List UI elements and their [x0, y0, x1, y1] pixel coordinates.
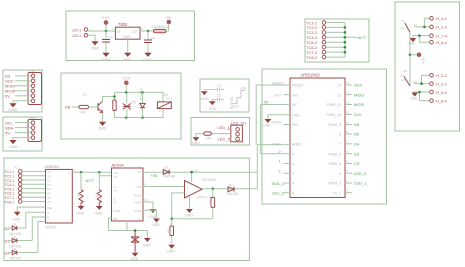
svg-text:5V: 5V — [264, 100, 269, 105]
wire coil ring — [115, 92, 164, 117]
wire gnd pair bottom — [413, 92, 430, 101]
ground LED — [193, 138, 199, 141]
svg-text:H_3-2: H_3-2 — [436, 73, 448, 78]
pin 3V3 — [284, 94, 291, 96]
svg-text:D6: D6 — [354, 132, 360, 137]
svg-text:GND: GND — [91, 46, 100, 51]
svg-text:-IN: -IN — [113, 175, 117, 179]
ground top group — [410, 38, 416, 41]
frame relay driver — [61, 73, 181, 139]
svg-text:PWM_10: PWM_10 — [326, 113, 341, 117]
module U2 ARDUINO — [290, 78, 345, 198]
ground under T1 — [100, 122, 106, 125]
svg-text:GND: GND — [185, 214, 193, 218]
svg-text:GND: GND — [143, 57, 152, 62]
pin 2 LED_1 — [345, 192, 352, 194]
ground SV1 — [10, 104, 16, 107]
wire fuse to +5V — [166, 25, 169, 32]
connector pin 12V-2 — [84, 34, 88, 38]
svg-text:GND: GND — [148, 215, 156, 219]
svg-text:INH: INH — [47, 206, 52, 210]
svg-text:C2: C2 — [217, 94, 221, 98]
pin AREF — [257, 144, 290, 146]
wire R4 to base — [89, 106, 99, 108]
frame programming header — [3, 70, 42, 112]
diode D5 1N4148 — [163, 170, 169, 175]
pin H_5-4 — [430, 90, 434, 94]
wire R2 drop — [80, 172, 82, 189]
svg-text:GND: GND — [130, 257, 138, 261]
ground rail right — [145, 238, 151, 241]
relay K1 coil — [157, 102, 171, 109]
svg-text:LED_2: LED_2 — [354, 171, 367, 176]
svg-text:+12V: +12V — [421, 56, 425, 65]
wire select A — [26, 212, 46, 228]
ground varistor — [132, 253, 138, 256]
svg-text:1N4148: 1N4148 — [163, 174, 175, 178]
svg-text:MCP601: MCP601 — [203, 178, 217, 182]
svg-text:4051N: 4051N — [46, 226, 57, 230]
frame heater outputs — [395, 2, 460, 131]
diode D2 1N4148 — [9, 240, 33, 242]
wire -ALM to ground — [143, 202, 153, 209]
svg-text:GND: GND — [123, 35, 131, 39]
svg-text:8: 8 — [339, 133, 341, 137]
ground under regulator — [125, 53, 131, 56]
junction feedback — [170, 218, 173, 221]
pin H_1-2 — [430, 25, 434, 29]
wire stair to +5V — [233, 91, 245, 104]
pin 6 — [345, 153, 352, 155]
svg-text:A: A — [47, 211, 49, 215]
svg-text:12: 12 — [145, 198, 149, 202]
svg-text:CD4051: CD4051 — [45, 164, 60, 169]
svg-text:RESET: RESET — [292, 84, 305, 88]
junction top throw — [423, 26, 426, 29]
capacitor C3 — [105, 31, 107, 53]
junction top rail 2 — [141, 91, 144, 94]
svg-text:2: 2 — [279, 169, 281, 173]
junction bottom rail — [134, 229, 137, 232]
ground R3 — [97, 206, 103, 209]
svg-text:PWM_11: PWM_11 — [326, 103, 341, 107]
wire bottom throw — [414, 75, 430, 83]
svg-text:G5 1: G5 1 — [166, 97, 173, 101]
wire D6 to R4 — [72, 106, 79, 108]
svg-text:D2: D2 — [404, 69, 408, 73]
ground under C3 — [103, 53, 109, 56]
svg-text:D5: D5 — [164, 166, 168, 170]
pin 7 D4 — [345, 143, 352, 145]
PWRBOX — [66, 11, 195, 62]
svg-text:D3: D3 — [354, 151, 360, 156]
bus wire NCT — [344, 23, 346, 58]
pin VIN — [284, 124, 291, 126]
wire feedback bottom — [172, 218, 213, 220]
svg-text:1N4148: 1N4148 — [226, 192, 238, 196]
pin 2 SCK — [31, 79, 35, 83]
svg-text:H_4-2: H_4-2 — [436, 16, 448, 21]
LEDBOX — [191, 118, 250, 146]
diode D1 1N4148 — [9, 227, 26, 229]
svg-text:GND: GND — [9, 144, 18, 149]
resistor R2 — [79, 190, 83, 206]
ground INH — [14, 212, 20, 215]
pin A0 wire to opamp output — [260, 153, 290, 155]
svg-text:D10: D10 — [354, 112, 362, 117]
svg-text:PWM_6: PWM_6 — [328, 152, 341, 156]
pin 1 D3 — [31, 74, 35, 78]
svg-text:+12V: +12V — [121, 76, 131, 81]
pin 4 MOSI — [31, 89, 35, 93]
svg-text:FB: FB — [113, 217, 117, 221]
junction bottom throw — [420, 82, 423, 85]
ground under C4 — [145, 53, 151, 56]
pin 4 to ground — [31, 136, 35, 140]
wire +12V drop — [105, 25, 107, 31]
wire +12V drop — [125, 85, 127, 93]
svg-text:PWM_5: PWM_5 — [328, 162, 341, 166]
wire gnd pair top — [413, 36, 430, 43]
ARDUINO — [256, 69, 386, 204]
frame mounting — [200, 79, 249, 112]
svg-text:TC8-1: TC8-1 — [5, 200, 15, 204]
ground opamp — [187, 209, 193, 212]
wire select C — [38, 222, 46, 253]
svg-text:TX_1: TX_1 — [332, 191, 341, 195]
fuse F1 — [154, 29, 167, 32]
pin 1 SCL — [31, 121, 35, 125]
pin A4 — [284, 192, 290, 194]
svg-text:D6: D6 — [139, 234, 143, 238]
frame I2C header — [3, 117, 42, 151]
svg-text:+5VIN: +5VIN — [271, 120, 281, 124]
svg-text:C1: C1 — [217, 84, 221, 88]
wire opamp V- — [189, 197, 191, 209]
svg-text:-ALM: -ALM — [134, 201, 142, 205]
svg-text:ARDUINO: ARDUINO — [301, 73, 321, 78]
resistor R4 — [79, 105, 89, 108]
resistor R3 — [97, 190, 101, 206]
ground R8 — [169, 245, 175, 248]
connector LED_SO — [231, 125, 243, 142]
pin 3 circle — [236, 137, 240, 141]
wire emitter to ground — [102, 113, 104, 122]
wire to +12V supply — [410, 54, 417, 56]
ground G1 — [202, 92, 208, 95]
supply +12V right — [417, 53, 421, 57]
svg-text:H_5-4: H_5-4 — [436, 90, 448, 95]
ground arduino — [265, 119, 271, 122]
svg-text:D8: D8 — [354, 122, 360, 127]
svg-text:GND: GND — [13, 218, 21, 222]
svg-text:R3: R3 — [95, 193, 99, 197]
svg-text:D3: D3 — [13, 247, 17, 251]
pin 8 D6 — [345, 133, 352, 135]
svg-text:IC2: IC2 — [233, 105, 238, 109]
wire +5V rail — [143, 171, 257, 173]
svg-text:R4: R4 — [81, 111, 86, 115]
svg-text:LM741-N: LM741-N — [197, 195, 212, 199]
svg-text:V+: V+ — [137, 170, 141, 174]
wire G1 — [204, 90, 217, 92]
svg-text:0: 0 — [292, 152, 294, 156]
wire to ground — [195, 134, 197, 137]
varistor R8 — [126, 92, 128, 117]
wire G2 — [212, 100, 217, 102]
svg-text:K1: K1 — [401, 27, 405, 31]
pin 11 MOSI — [345, 104, 352, 106]
ground G2 — [210, 102, 216, 105]
svg-text:C3: C3 — [108, 36, 113, 40]
svg-text:12V-2: 12V-2 — [72, 34, 81, 38]
pin H_2-2 — [430, 82, 434, 86]
capacitor C1 — [218, 88, 225, 92]
junction output — [147, 30, 150, 33]
junction input — [105, 30, 108, 33]
svg-text:X7: X7 — [47, 200, 51, 204]
svg-text:LED_SO: LED_SO — [231, 122, 246, 126]
diode D3 1N4148 — [9, 252, 38, 254]
svg-text:GND: GND — [201, 97, 209, 101]
svg-text:CS: CS — [354, 161, 360, 166]
connector pin 12V-1 — [84, 28, 88, 32]
svg-text:SV1: SV1 — [29, 69, 36, 73]
svg-text:1: 1 — [292, 162, 294, 166]
svg-text:5V: 5V — [292, 103, 297, 107]
svg-text:X1: X1 — [15, 166, 19, 170]
SV1BOX — [3, 69, 42, 112]
svg-text:H_6-4: H_6-4 — [436, 98, 448, 103]
svg-text:GND: GND — [123, 57, 132, 62]
ground bottom group — [412, 93, 418, 96]
svg-text:VREF: VREF — [272, 143, 282, 147]
junction top rail — [125, 91, 128, 94]
pin RESET — [256, 85, 290, 145]
svg-text:2: 2 — [292, 172, 294, 176]
diode D7 output — [228, 187, 234, 192]
ground under 12V-2 — [92, 42, 98, 45]
pin 3 MISO — [31, 84, 35, 88]
svg-text:PWM_9: PWM_9 — [328, 123, 341, 127]
svg-text:X: X — [68, 172, 70, 176]
frame arduino module — [262, 69, 387, 204]
pin 5 CS — [345, 163, 352, 165]
svg-text:12: 12 — [337, 93, 341, 97]
svg-text:0: 0 — [279, 150, 281, 154]
wire VO to opamp — [143, 186, 185, 188]
resistor R8 — [171, 219, 173, 245]
diode D1 1N4004 — [142, 92, 144, 117]
svg-text:SV2: SV2 — [29, 116, 36, 120]
svg-text:+5V: +5V — [165, 15, 173, 20]
svg-text:R5: R5 — [114, 101, 118, 106]
pin 9 D8 — [345, 124, 352, 126]
GRAYBOX — [200, 79, 249, 112]
wire regulator output — [140, 30, 154, 32]
junction collector — [113, 95, 116, 98]
pin 3 LED_2 — [345, 182, 352, 184]
junction bottom rail — [125, 116, 128, 119]
RIGHTBOX — [395, 2, 460, 131]
pin 10 D10 — [345, 113, 352, 115]
junction gnd pair bottom — [418, 91, 421, 94]
svg-text:R2: R2 — [76, 193, 80, 197]
varistor D6 — [131, 231, 139, 253]
svg-text:RESET: RESET — [272, 81, 285, 85]
wire +12V rail — [409, 32, 411, 86]
svg-text:D1: D1 — [13, 222, 17, 226]
svg-text:1N4148: 1N4148 — [9, 256, 21, 260]
svg-text:GND: GND — [167, 249, 175, 253]
svg-text:R6: R6 — [207, 137, 212, 141]
RELAYBOX — [61, 73, 181, 139]
pin H_3-2 — [430, 73, 434, 77]
pin 2 SDA — [31, 126, 35, 130]
svg-text:SCK: SCK — [354, 83, 363, 88]
junction gnd pair — [418, 34, 421, 37]
svg-text:VIN: VIN — [292, 123, 298, 127]
svg-text:5: 5 — [292, 191, 294, 195]
svg-text:GND: GND — [95, 212, 103, 216]
svg-text:H_1-2: H_1-2 — [436, 25, 448, 30]
svg-text:GND: GND — [143, 244, 151, 248]
wire output — [202, 145, 257, 189]
svg-text:AD594: AD594 — [112, 163, 125, 168]
resistor R7 — [212, 189, 214, 219]
svg-text:3V3: 3V3 — [275, 93, 281, 97]
capacitor C4 — [147, 31, 149, 53]
svg-text:MISO: MISO — [354, 92, 364, 97]
svg-text:12V-1: 12V-1 — [72, 28, 81, 32]
svg-text:SCL_5: SCL_5 — [272, 190, 285, 195]
svg-text:13: 13 — [346, 81, 350, 85]
svg-text:3V3: 3V3 — [292, 93, 298, 97]
junction rail — [409, 53, 412, 56]
svg-text:COM: COM — [134, 209, 142, 213]
pin 13 SCK — [345, 84, 352, 86]
svg-text:+T: +T — [113, 201, 117, 205]
svg-text:SDA_4: SDA_4 — [272, 181, 285, 186]
resistor R6 — [204, 132, 212, 135]
wire mux out to AD594 — [72, 171, 111, 173]
svg-text:+5V: +5V — [151, 173, 159, 178]
wire rail right ground — [146, 231, 148, 238]
svg-text:GND: GND — [152, 223, 160, 227]
pin 12 MISO — [345, 94, 352, 96]
pin 5V — [260, 105, 290, 154]
pin 2 circle — [236, 132, 240, 136]
regulator IC1 7805 — [115, 27, 140, 39]
TCBOX — [305, 19, 369, 62]
svg-text:H_8-4: H_8-4 — [436, 40, 448, 45]
svg-text:H_2-2: H_2-2 — [436, 81, 448, 86]
junction output — [212, 187, 215, 190]
wire R6 to pin2 — [196, 132, 231, 135]
svg-text:4: 4 — [339, 172, 341, 176]
svg-text:H_7-4: H_7-4 — [436, 33, 448, 38]
capacitor C2 — [218, 98, 225, 102]
pin 6 to ground — [31, 99, 35, 103]
ground R2 — [78, 206, 84, 209]
pin H_7-4 — [430, 34, 434, 38]
svg-text:+5V: +5V — [193, 169, 198, 173]
ground -ALM — [150, 209, 156, 212]
svg-text:R8: R8 — [167, 229, 171, 233]
pin GND wire — [268, 115, 290, 119]
wire FB loop — [109, 218, 112, 230]
pin 1 circle — [236, 128, 240, 132]
wire COM right to ground — [143, 210, 157, 218]
svg-text:GND: GND — [209, 107, 217, 111]
pin 4 — [345, 172, 352, 174]
wire -IN — [99, 172, 111, 175]
svg-text:D2: D2 — [13, 235, 17, 239]
svg-text:4: 4 — [292, 182, 294, 186]
pin 5 5V — [31, 94, 35, 98]
pin H_8-4 — [430, 40, 434, 44]
wire select B — [32, 217, 45, 241]
svg-text:NCT: NCT — [358, 35, 367, 40]
wire 12V-2 to ground — [88, 35, 95, 41]
svg-text:NCT: NCT — [86, 178, 95, 183]
svg-text:VO: VO — [132, 30, 137, 34]
svg-text:GND: GND — [192, 141, 200, 145]
svg-text:V-: V- — [138, 217, 141, 221]
svg-text:B: B — [47, 216, 49, 220]
wire collector — [103, 97, 115, 102]
wire R3 drop — [98, 176, 100, 190]
svg-text:+12V: +12V — [100, 15, 110, 20]
ground COM — [154, 219, 160, 222]
junction bottom rail 2 — [141, 116, 144, 119]
svg-text:GND: GND — [76, 212, 84, 216]
svg-text:GND: GND — [9, 107, 18, 112]
pin A1 — [284, 163, 291, 165]
wire INH to ground — [17, 207, 45, 212]
svg-text:MOSI: MOSI — [354, 102, 364, 107]
svg-text:VI: VI — [117, 30, 120, 34]
wire V- bottom rail — [109, 221, 148, 231]
svg-text:T1: T1 — [83, 93, 87, 97]
svg-text:D1: D1 — [401, 19, 405, 23]
pin A3 — [284, 182, 290, 184]
wire 12V input to regulator — [88, 30, 115, 32]
svg-text:D4: D4 — [354, 141, 360, 146]
svg-text:10: 10 — [346, 110, 350, 114]
svg-text:12: 12 — [346, 91, 350, 95]
svg-text:5V: 5V — [5, 94, 10, 99]
frame power supply — [66, 11, 195, 61]
frame measurement chain — [4, 158, 249, 261]
svg-text:TC8-2: TC8-2 — [306, 55, 318, 60]
svg-text:GND: GND — [408, 42, 416, 46]
svg-text:+5V: +5V — [240, 87, 247, 91]
svg-text:7: 7 — [339, 142, 341, 146]
svg-text:AREF: AREF — [292, 143, 302, 147]
multiplexer IC3 CD4051 — [46, 169, 73, 223]
svg-text:GND: GND — [410, 97, 418, 101]
SV2BOX — [3, 116, 42, 151]
wire top throw — [415, 18, 430, 27]
pin 3 5V — [31, 131, 35, 135]
frame thermocouple commons — [305, 19, 369, 62]
svg-text:D6: D6 — [65, 105, 71, 110]
svg-text:+ALM: +ALM — [133, 193, 141, 197]
svg-text:11: 11 — [346, 101, 349, 105]
connector SV1 — [28, 73, 42, 105]
svg-text:COM: COM — [113, 209, 121, 213]
